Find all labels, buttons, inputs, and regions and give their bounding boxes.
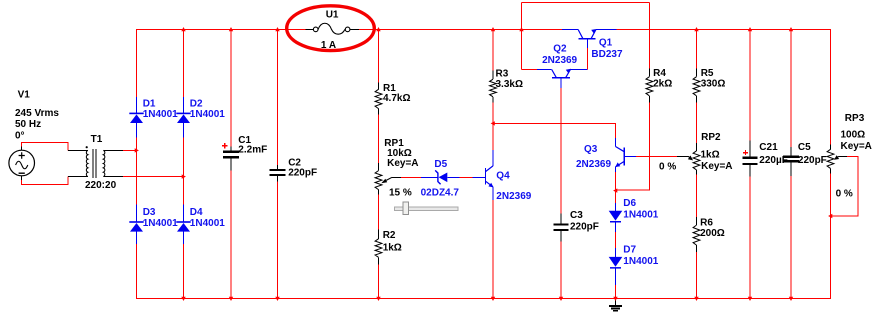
RP1 slider track [395, 207, 459, 211]
svg-text:Q4: Q4 [496, 170, 510, 181]
transistor Q1 [579, 38, 596, 40]
wire R3 bottom to Q3 collector [493, 123, 616, 138]
svg-text:1N4001: 1N4001 [190, 218, 225, 229]
svg-text:1N4001: 1N4001 [190, 109, 225, 120]
wire R1 RP1 R2 column [378, 29, 380, 299]
svg-text:2N2369: 2N2369 [496, 191, 531, 202]
Q4 emitter arrow [488, 183, 493, 188]
RP3 wiper arrow [836, 156, 839, 158]
svg-text:U1: U1 [326, 10, 339, 21]
svg-text:100Ω: 100Ω [841, 129, 866, 140]
transistor Q2 [552, 77, 570, 79]
svg-text:D5: D5 [434, 159, 447, 170]
wire RP1 wiper to D5 [401, 176, 421, 178]
wire C2 column [277, 29, 279, 299]
svg-text:D4: D4 [190, 207, 203, 218]
diode D4 [183, 205, 185, 244]
svg-text:220:20: 220:20 [85, 180, 117, 191]
wire bottom ground rail [136, 298, 831, 300]
Q2 emitter arrow [566, 69, 571, 74]
diode D6 [615, 203, 617, 232]
svg-text:0 %: 0 % [836, 188, 853, 199]
resistor R4 [648, 69, 650, 103]
RP1 slider handle [403, 202, 409, 215]
svg-text:1N4001: 1N4001 [623, 256, 658, 267]
svg-text:D1: D1 [143, 98, 156, 109]
svg-text:R4: R4 [653, 68, 666, 79]
svg-text:3.3kΩ: 3.3kΩ [496, 79, 523, 90]
annotation ellipse around fuse [287, 6, 375, 51]
wire D5 to Q4 base [459, 176, 472, 178]
svg-text:C3: C3 [570, 210, 583, 221]
svg-text:D6: D6 [623, 198, 636, 209]
svg-text:2N2369: 2N2369 [542, 55, 577, 66]
capacitor C2 [277, 165, 279, 182]
svg-text:2kΩ: 2kΩ [653, 79, 672, 90]
svg-text:RP3: RP3 [845, 113, 865, 124]
wire Q3 emitter column [615, 172, 617, 299]
wire RP3 wiper loop [839, 155, 848, 157]
wire Q2 emitter to Q1 base [587, 48, 589, 69]
wire V1 bottom to T1 primary [22, 177, 69, 185]
svg-text:V1: V1 [18, 90, 31, 101]
wire V1 top to T1 primary [22, 142, 69, 150]
svg-text:Key=A: Key=A [701, 161, 732, 172]
wire top bus rail [136, 28, 562, 30]
svg-text:220pF: 220pF [288, 167, 317, 178]
svg-text:330Ω: 330Ω [701, 79, 726, 90]
svg-text:220pF: 220pF [798, 155, 827, 166]
svg-text:Q3: Q3 [584, 144, 598, 155]
transistor Q3 [623, 148, 625, 166]
wire Q2 collector to bus [522, 68, 538, 70]
svg-text:1kΩ: 1kΩ [701, 149, 720, 160]
resistor R3 [492, 71, 494, 103]
diode D1 [136, 97, 138, 137]
capacitor C21 [749, 141, 751, 177]
wire Q2 base to C3 column [560, 88, 562, 299]
potentiometer RP3 [830, 144, 832, 173]
svg-text:2.2mF: 2.2mF [238, 145, 267, 156]
svg-text:1N4001: 1N4001 [143, 109, 178, 120]
resistor R1 [378, 83, 380, 115]
svg-text:BD237: BD237 [591, 49, 623, 60]
svg-text:R6: R6 [700, 217, 713, 228]
svg-text:R2: R2 [383, 230, 396, 241]
T1 secondary winding [103, 150, 105, 176]
wire R4 column [616, 3, 650, 191]
svg-text:Key=A: Key=A [387, 158, 418, 169]
svg-text:2N2369: 2N2369 [576, 159, 611, 170]
svg-text:D3: D3 [143, 207, 156, 218]
resistor R5 [696, 69, 698, 103]
junction markers [135, 27, 833, 301]
wire Q3 base to RP2 wiper [636, 155, 677, 157]
wire R5 RP2 R6 column [696, 29, 698, 299]
svg-text:0 %: 0 % [659, 161, 676, 172]
svg-text:C5: C5 [798, 142, 811, 153]
wire output rail [617, 28, 832, 30]
capacitor C1 [230, 147, 232, 171]
svg-text:RP2: RP2 [701, 132, 721, 143]
svg-text:02DZ4.7: 02DZ4.7 [421, 188, 460, 199]
wire D1 D3 column [136, 29, 138, 299]
capacitor C3 [560, 214, 562, 242]
wire C1 column [230, 29, 232, 299]
T1 primary winding [86, 150, 88, 176]
potentiometer RP2 [696, 143, 698, 174]
svg-text:15 %: 15 % [389, 187, 412, 198]
svg-text:R5: R5 [701, 68, 714, 79]
AC source V1 [9, 150, 35, 176]
transistor Q4 [473, 176, 486, 178]
wire T1 secondary top to bridge [123, 149, 137, 151]
potentiometer RP1 [378, 163, 380, 195]
wire T1 secondary bottom to bridge [123, 176, 184, 178]
svg-text:Q1: Q1 [599, 37, 613, 48]
svg-text:4.7kΩ: 4.7kΩ [383, 93, 410, 104]
svg-text:Key=A: Key=A [841, 141, 872, 152]
T1 phase dot [86, 146, 88, 148]
wire C21 column [749, 29, 751, 299]
T1 core [93, 149, 96, 178]
Q1 emitter arrow [591, 29, 596, 34]
Q3 emitter arrow [615, 162, 620, 167]
wire top loop [522, 3, 650, 70]
svg-text:D7: D7 [623, 244, 636, 255]
svg-text:R1: R1 [383, 83, 396, 94]
C21 polarity plus [743, 150, 748, 155]
RP2 wiper arrow [677, 155, 688, 157]
svg-text:1N4001: 1N4001 [143, 218, 178, 229]
svg-text:Q2: Q2 [553, 43, 567, 54]
capacitor C5 [790, 147, 792, 176]
V1 terminal stubs [21, 147, 23, 180]
diode D3 [136, 205, 138, 244]
fuse U1 [306, 28, 359, 30]
diode D7 [615, 248, 617, 285]
svg-text:1kΩ: 1kΩ [383, 242, 402, 253]
zener diode D5 [421, 176, 459, 178]
resistor R6 [696, 217, 698, 252]
wire D2 D4 column [183, 29, 185, 299]
svg-text:220pF: 220pF [570, 221, 599, 232]
svg-text:C21: C21 [759, 142, 778, 153]
svg-text:R3: R3 [496, 68, 509, 79]
svg-text:245 Vrms: 245 Vrms [15, 108, 59, 119]
C1 polarity plus [222, 143, 227, 148]
RP1 wiper arrow [386, 177, 392, 180]
diode D2 [183, 97, 185, 137]
svg-text:1N4001: 1N4001 [623, 210, 658, 221]
svg-text:T1: T1 [91, 134, 103, 145]
svg-text:200Ω: 200Ω [700, 228, 725, 239]
wire R3 Q4 column [492, 29, 494, 299]
svg-text:0°: 0° [15, 131, 25, 142]
ground [615, 299, 617, 306]
transformer T1 [68, 150, 123, 176]
resistor R2 [378, 230, 380, 265]
svg-text:D2: D2 [190, 98, 203, 109]
wire C5 column [790, 29, 792, 299]
wire RP3 column [830, 29, 832, 299]
svg-text:50 Hz: 50 Hz [15, 119, 41, 130]
